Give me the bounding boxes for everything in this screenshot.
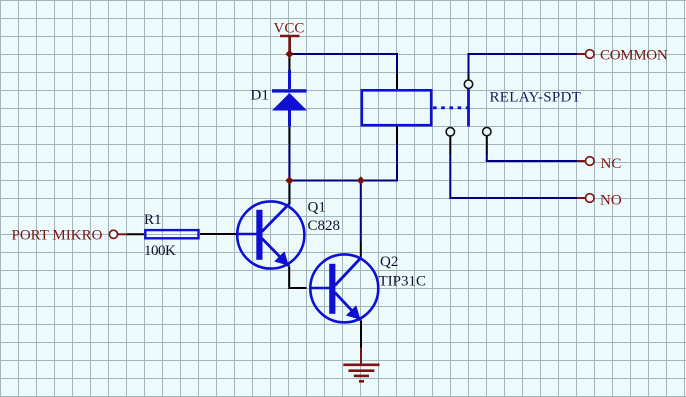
wire VCC junction to D1 cathode (black segment) <box>289 54 291 70</box>
svg-text:RELAY-SPDT: RELAY-SPDT <box>490 90 582 106</box>
svg-text:TIP31C: TIP31C <box>379 274 427 290</box>
Q2 collector pin (black) <box>360 242 362 258</box>
wire COMMON horizontal <box>469 53 578 55</box>
svg-text:COMMON: COMMON <box>600 48 668 64</box>
wire relay coil top vertical <box>396 53 398 72</box>
transistor Q1 <box>237 201 305 268</box>
relay pole contact circle <box>464 80 472 88</box>
terminal COMMON <box>577 50 594 59</box>
svg-text:NC: NC <box>601 156 622 172</box>
svg-text:D1: D1 <box>251 88 269 104</box>
svg-text:C828: C828 <box>308 218 341 234</box>
svg-text:R1: R1 <box>144 212 162 228</box>
wire mid-rail to Q2 collector (navy part) <box>360 181 362 242</box>
relay NC contact circle <box>483 127 491 135</box>
wire VCC junction to relay coil (horizontal) <box>289 53 398 55</box>
svg-text:100K: 100K <box>144 243 176 259</box>
junction dot at Q2 collector node <box>357 176 365 184</box>
terminal PORT MIKRO <box>109 230 127 238</box>
wire NO contact down <box>449 136 451 154</box>
wire NO horizontal <box>449 197 577 199</box>
wire mid-rail horizontal D1/Q1 to relay <box>290 180 398 182</box>
junction dot at VCC node <box>285 50 293 58</box>
wire D1 anode to mid-rail junction (black segment) <box>289 126 291 144</box>
svg-text:NO: NO <box>600 193 622 209</box>
junction dot at D1/Q1 collector node <box>285 176 293 184</box>
wire R1 right pin to Q1 base (black) <box>200 233 237 235</box>
terminal NC <box>577 157 594 166</box>
wire Q2 emitter to ground (black) <box>360 321 362 348</box>
wire Q1 emitter to Q2 base (black) <box>289 267 306 289</box>
svg-text:VCC: VCC <box>274 21 305 37</box>
svg-text:Q1: Q1 <box>308 200 326 216</box>
relay coil top pin (black) <box>396 72 398 90</box>
terminal NO <box>577 194 594 203</box>
relay coil bottom pin (black) <box>396 127 398 145</box>
resistor R1 <box>145 230 198 238</box>
relay coil box <box>362 90 431 125</box>
svg-text:Q2: Q2 <box>380 254 398 270</box>
wire COMMON corner down to switch pole <box>468 53 470 74</box>
transistor Q2 <box>310 254 378 322</box>
wire R1 left pin (black) <box>127 233 145 235</box>
wire relay coil bottom to mid-rail <box>396 145 398 182</box>
ground symbol <box>343 348 379 382</box>
diode D1 <box>272 70 307 126</box>
relay NO contact circle <box>446 128 454 136</box>
relay actuator dashed link <box>433 106 468 109</box>
wire NC contact down <box>486 136 488 154</box>
wire NC horizontal <box>486 160 577 162</box>
relay switch lever <box>467 89 470 127</box>
power VCC symbol <box>280 36 300 54</box>
svg-text:PORT MIKRO: PORT MIKRO <box>12 228 103 244</box>
Q1 collector pin (black) <box>289 181 291 205</box>
